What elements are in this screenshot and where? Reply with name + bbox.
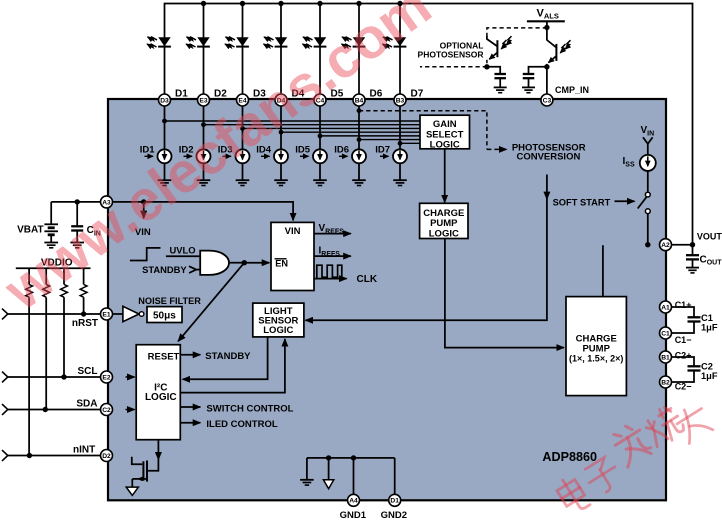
svg-text:LOGIC: LOGIC xyxy=(429,228,459,239)
svg-text:A4: A4 xyxy=(349,498,358,505)
svg-text:C1: C1 xyxy=(661,330,670,337)
svg-text:B2: B2 xyxy=(661,379,670,386)
svg-text:ID5: ID5 xyxy=(295,144,311,155)
svg-text:GND1: GND1 xyxy=(340,510,367,521)
svg-text:LOGIC: LOGIC xyxy=(430,139,460,150)
svg-text:PHOTOSENSOR: PHOTOSENSOR xyxy=(418,49,484,59)
svg-text:C1−: C1− xyxy=(675,335,692,345)
svg-text:B4: B4 xyxy=(355,97,364,104)
svg-text:D1: D1 xyxy=(390,498,399,505)
svg-text:ID6: ID6 xyxy=(334,144,349,155)
svg-text:C3: C3 xyxy=(543,97,552,104)
svg-text:VOUT: VOUT xyxy=(697,231,722,241)
svg-text:CMP_IN: CMP_IN xyxy=(555,85,589,95)
svg-text:C2−: C2− xyxy=(675,381,692,391)
svg-text:C1+: C1+ xyxy=(675,300,692,310)
svg-text:D6: D6 xyxy=(370,88,383,99)
svg-text:LOGIC: LOGIC xyxy=(145,392,177,403)
svg-text:(1×, 1.5×, 2×): (1×, 1.5×, 2×) xyxy=(569,354,623,364)
svg-text:GAIN: GAIN xyxy=(433,119,457,130)
svg-text:1μF: 1μF xyxy=(701,371,718,381)
svg-text:nINT: nINT xyxy=(73,444,95,455)
svg-text:C2+: C2+ xyxy=(675,350,692,360)
svg-text:STANDBY: STANDBY xyxy=(205,351,251,362)
svg-text:ID1: ID1 xyxy=(140,144,156,155)
svg-text:D1: D1 xyxy=(175,88,188,99)
svg-text:D3: D3 xyxy=(160,97,169,104)
svg-text:A1: A1 xyxy=(661,304,670,311)
svg-text:C1: C1 xyxy=(701,313,713,323)
svg-text:B3: B3 xyxy=(396,97,405,104)
svg-text:SCL: SCL xyxy=(78,366,98,377)
svg-text:E1: E1 xyxy=(102,311,110,318)
svg-text:ADP8860: ADP8860 xyxy=(542,450,597,464)
svg-text:SOFT START: SOFT START xyxy=(553,198,611,208)
svg-text:SWITCH CONTROL: SWITCH CONTROL xyxy=(206,403,293,414)
svg-text:ILED CONTROL: ILED CONTROL xyxy=(206,419,277,430)
svg-text:C2: C2 xyxy=(102,407,111,414)
svg-text:UVLO: UVLO xyxy=(170,244,196,255)
svg-text:E2: E2 xyxy=(102,374,110,381)
svg-text:CLK: CLK xyxy=(357,274,378,285)
svg-text:CONVERSION: CONVERSION xyxy=(516,151,580,162)
svg-text:B1: B1 xyxy=(661,354,670,361)
svg-text:nRST: nRST xyxy=(72,318,98,329)
svg-text:VBAT: VBAT xyxy=(17,224,43,235)
svg-text:A2: A2 xyxy=(661,242,670,249)
svg-text:NOISE FILTER: NOISE FILTER xyxy=(138,296,201,306)
svg-text:1μF: 1μF xyxy=(701,323,718,333)
svg-text:C2: C2 xyxy=(701,361,713,371)
svg-text:RESET: RESET xyxy=(148,352,180,363)
svg-text:LOGIC: LOGIC xyxy=(263,325,293,336)
svg-text:D2: D2 xyxy=(102,453,111,460)
svg-text:VIN: VIN xyxy=(285,226,301,237)
svg-text:EN: EN xyxy=(275,259,288,269)
svg-text:STANDBY: STANDBY xyxy=(142,264,187,275)
svg-text:ID7: ID7 xyxy=(375,144,390,155)
svg-text:GND2: GND2 xyxy=(381,510,407,521)
svg-text:D7: D7 xyxy=(411,88,424,99)
svg-text:50μs: 50μs xyxy=(153,311,176,322)
svg-text:E3: E3 xyxy=(199,97,207,104)
svg-text:D2: D2 xyxy=(214,88,227,99)
svg-text:SDA: SDA xyxy=(76,398,97,409)
